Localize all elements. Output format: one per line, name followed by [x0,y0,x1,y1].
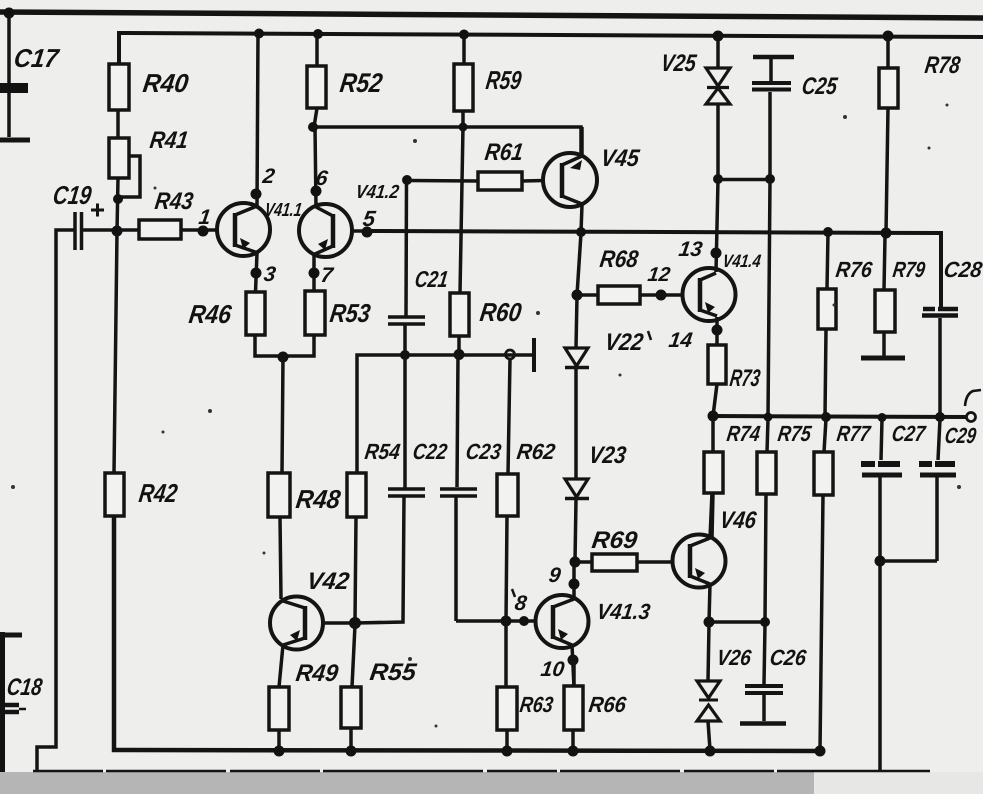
svg-text:V46: V46 [718,507,758,534]
capacitor C18 [0,674,44,712]
resistor R42 [105,232,180,516]
node V45 emitter on line [576,227,586,237]
wire V41.4 emitter to pin14/R73 [715,317,719,345]
wire V41.2 collector up [315,127,316,207]
ground bar under R79 [861,356,905,361]
svg-text:V22: V22 [603,329,645,356]
resistor R76 [818,233,874,417]
wire V41.1 collector to rail2 [257,33,258,206]
node R76 top [823,227,833,237]
wire emitter tie to C26 [709,620,765,624]
node R62 socket circle [506,350,515,359]
wire lower scan line y771 [33,770,930,773]
svg-text:V45: V45 [599,145,641,172]
svg-text:R60: R60 [478,297,524,327]
node pin 5 [362,227,373,238]
node pin 2 [251,189,262,200]
wire V45 emitter node down to V22 [577,233,581,295]
resistor R75 [757,419,813,622]
wire V45 bottom to y231 line [581,205,582,232]
node base R62/R63 [501,616,512,627]
transistor V41.4 [683,251,763,321]
node pin 8 [519,616,529,626]
resistor R63 [497,687,555,751]
svg-text:V41.4: V41.4 [721,251,762,271]
wire y355 line [357,355,533,473]
resistor R73 [708,345,762,416]
node V42 base / R54 / R55 [349,617,361,629]
svg-text:R75: R75 [776,421,813,446]
capacitor C22 [355,357,449,623]
wire V46 collector to R74 [710,493,712,538]
capacitor C23 [440,355,503,621]
node R52 bottom [308,122,318,132]
svg-text:12: 12 [646,264,671,286]
transistor V45 [543,145,641,207]
diode V23 [565,442,628,498]
node rail416 C28/C29 [935,412,945,422]
node rail416 C27 [878,413,887,422]
svg-text:V41.1: V41.1 [263,200,303,221]
capacitor C26 [740,624,808,724]
svg-text:R42: R42 [137,478,180,508]
svg-text:C18: C18 [5,674,44,701]
capacitor C29 [919,419,978,561]
node R60 bottom [454,349,465,360]
svg-text:C21: C21 [413,266,450,292]
svg-text:R69: R69 [590,527,639,554]
resistor R60 [450,293,524,354]
wire R41 bottom to node [117,178,118,232]
node V25/C25 tie left [713,174,723,184]
bidirectional zener V26 [697,624,753,750]
resistor R54 [347,439,402,622]
svg-text:R76: R76 [834,257,874,282]
svg-text:R41: R41 [148,127,190,154]
resistor R68 [572,246,662,304]
resistor R61 [402,139,544,190]
node rail V26 [705,746,716,757]
wire bottom ground rail [114,516,820,751]
node rail416 R75 [764,413,773,422]
wire V41.3 base [456,619,536,623]
V22 label apostrophe tick [648,331,651,340]
transistor V46 [673,507,759,587]
wire V41.3 collector to R69 node [572,562,576,599]
wire V22 to V23 [574,368,578,479]
wire base V41.4 [661,293,683,297]
node R41 arm [113,194,123,204]
svg-text:R78: R78 [923,52,962,79]
node rail2 R59 [459,30,469,40]
node pin 10 [568,655,579,666]
node tie right [765,174,775,184]
svg-text:R55: R55 [368,659,418,686]
svg-text:R40: R40 [141,68,191,98]
transistor V41.3 [536,595,653,648]
wire y127 line R52 to V45 collector [313,127,581,158]
wire top supply rail [0,12,983,18]
wire V46 emitter down [709,584,710,622]
wire V41.2 base to pin5 [352,229,368,233]
wire R46/R53 emitter junction [255,335,314,356]
node pin 12 [656,290,667,301]
svg-text:V25: V25 [659,50,698,77]
svg-text:R59: R59 [484,65,524,95]
capacitor C21 [388,180,450,355]
svg-text:C17: C17 [12,43,62,73]
svg-text:R68: R68 [598,246,640,273]
svg-text:V41.2: V41.2 [354,182,400,203]
node rail416 R73/R74 [708,411,719,422]
node pin 14 [712,325,723,336]
node pin 13 [711,248,722,259]
node rail2 R78 [883,31,894,42]
svg-text:R66: R66 [587,692,628,717]
capacitor C28 [922,257,983,417]
resistor R78 [879,38,962,233]
svg-text:R54: R54 [363,439,401,464]
left scan border strip [0,632,22,772]
transistor V41.2 [299,182,401,257]
svg-text:V42: V42 [305,568,351,595]
node C26 top [760,617,770,627]
wire R59 to R60 [460,127,463,293]
node top rail / C17 [4,8,15,19]
node C21/C22 junction [400,350,410,360]
wire R41 tap arm [117,156,140,197]
wire C29 to C27 tie [880,559,937,563]
resistor R69 [570,527,674,571]
svg-text:V23: V23 [587,442,628,469]
wire V41.3 emitter to pin10/R66 [572,645,574,687]
pin 8 tick [512,589,515,597]
gray scanner bar bottom right [814,772,983,794]
svg-text:R63: R63 [518,692,555,717]
node R78/R79 on y231 [881,228,892,239]
resistor R40 [109,64,191,110]
node rail R66 [568,746,579,757]
svg-text:R48: R48 [294,484,343,514]
wire C25 junction down to rail416 [768,180,770,417]
svg-text:R62: R62 [515,439,557,464]
svg-text:C27: C27 [890,421,928,446]
paper specks [11,104,961,728]
resistor R52 [307,34,384,127]
bidirectional zener V25 [659,37,730,180]
capacitor C25 [752,57,839,180]
resistor R77 [814,419,873,751]
node C19 R43 junction [112,226,123,237]
resistor R55 [341,625,419,751]
svg-text:C29: C29 [943,423,978,448]
node pin 1 [198,226,209,237]
resistor R48 [268,473,343,599]
node rail R49 [274,746,285,757]
node rail416 R76/R77 [821,412,831,422]
node rail2 R52 [313,29,323,39]
output hook symbol [965,390,981,406]
resistor R49 [269,660,340,751]
svg-text:R61: R61 [483,139,525,166]
wire R53 top / pin7 [312,254,316,291]
svg-text:10: 10 [539,658,566,681]
resistor R62 [497,359,557,621]
svg-text:R46: R46 [187,299,234,329]
terminal bar right of y355 [532,338,536,372]
wire R40-R41 [116,110,120,138]
svg-text:R74: R74 [725,421,761,446]
node R59 bottom on y127 [459,123,468,132]
wire output rail y416 [711,416,967,417]
diode V22 [565,329,645,367]
output terminal circle [967,413,976,422]
wire V42 emitter to R49 [279,645,283,687]
svg-text:R53: R53 [328,298,373,328]
wire second supply rail [119,33,983,64]
svg-text:R79: R79 [891,257,927,282]
transistor V42 [270,568,352,649]
svg-text:C19: C19 [51,180,94,210]
capacitor C27 [861,419,928,770]
wire long y231 line [367,231,941,307]
node pin 6 [311,186,322,197]
capacitor C19 [51,180,104,250]
wire junction down to R48 [282,357,283,473]
resistor R74 [704,418,762,538]
wire V45 top to y127 corner [580,127,584,156]
svg-text:14: 14 [667,329,694,352]
wire C19 left down the left side [37,230,74,770]
resistor R46 [187,292,265,335]
transistor V41.1 [217,200,303,256]
node pin 7 [309,268,320,279]
svg-text:C25: C25 [800,73,839,100]
node V46 emitter tie [704,617,715,628]
svg-text:13: 13 [677,238,704,261]
svg-text:R73: R73 [728,365,762,392]
svg-text:R52: R52 [338,67,384,98]
node pin 9 [569,579,580,590]
svg-text:V41.3: V41.3 [595,599,652,624]
svg-text:C22: C22 [411,439,449,464]
svg-text:C26: C26 [768,645,808,670]
node rail R63 [502,746,513,757]
wire V41.1 emitter to R46 [256,253,258,292]
wire C19 right to node [83,228,113,232]
wire V25 down to V41.4 collector [716,180,718,272]
node rail R77 end [815,746,826,757]
resistor R79 [875,236,927,356]
resistor R66 [564,662,628,751]
svg-text:C23: C23 [464,439,503,464]
wire R62 node to R63 [504,621,508,687]
svg-text:R77: R77 [835,421,873,446]
resistor R43 [117,188,217,239]
node rail2 V25 [713,31,724,42]
resistor R53 [305,291,373,335]
node pin 3 [251,268,262,279]
resistor R41 [109,127,190,178]
svg-text:C28: C28 [942,257,983,282]
wire V25-C25 tie [718,178,770,182]
wire V23 to pin9 node [575,499,576,562]
node C27/C29 bottom tie [875,556,886,567]
svg-text:R49: R49 [294,660,340,687]
svg-text:V26: V26 [715,645,753,670]
gray scanner bar bottom left [0,772,814,794]
capacitor C17 [0,15,62,140]
wire V42 base to node [323,621,355,625]
svg-text:R43: R43 [153,188,195,215]
node rail R55 [346,746,357,757]
node rail2 V41.1 collector [254,29,264,39]
node emitter junction [278,352,289,363]
resistor R59 [454,35,524,127]
